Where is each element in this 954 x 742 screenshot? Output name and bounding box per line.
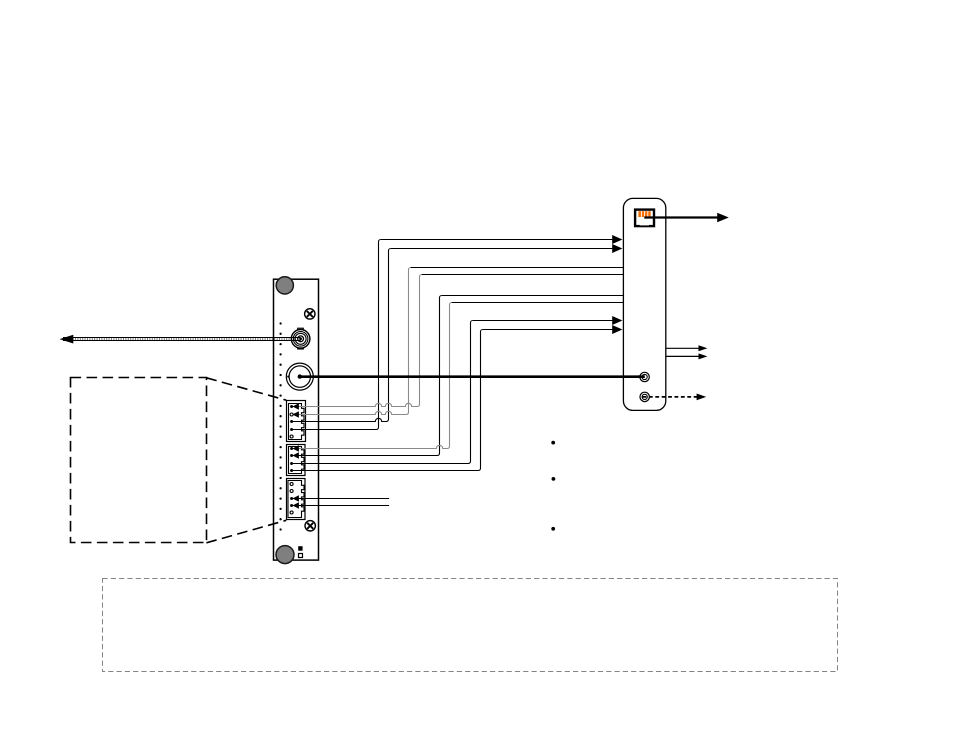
TB3 pin 1 contact <box>290 483 293 486</box>
note area dashed border (bottom) <box>103 579 838 672</box>
connector J2 (large round) <box>286 363 313 390</box>
TB2 pin 2 arrow <box>292 452 299 459</box>
dashed wire W-AUX with arrow <box>643 394 707 401</box>
wire W-NET from RJ jack to network (arrow right) <box>644 213 729 223</box>
wire W6: TB2 pin1 run and riser (hops W5) <box>292 303 452 449</box>
wire W3 top run to DEV1 <box>411 267 624 269</box>
coax cable W-ANT to antenna (left arrow) <box>60 335 301 344</box>
TB2 pin 1 contact <box>290 447 293 450</box>
device DEV1 body (wall unit) <box>623 198 665 410</box>
mounting knob bottom <box>276 546 294 564</box>
detail projection line top <box>206 378 286 400</box>
device jack JP1 (fed by thick wire) <box>639 372 650 381</box>
TB1 pin 4 contact <box>290 428 293 431</box>
detail callout dashed box <box>71 378 207 543</box>
wire W8 top run to DEV1 (arrow) <box>483 329 614 331</box>
detail projection line bottom <box>206 520 286 543</box>
terminal block TB2 outer <box>287 445 306 476</box>
terminal block TB2 inner castellated edge <box>289 447 305 474</box>
TB1 pin 1 contact <box>290 405 293 408</box>
panel LED dot column <box>279 322 281 324</box>
wires W-OUT pair from device right edge <box>666 345 708 359</box>
wire W5: TB2 pin2 run and riser <box>292 296 442 456</box>
bullet list markers <box>551 441 555 445</box>
TB1 pin 1 arrow <box>292 403 299 410</box>
wire W-PWR thick from J2 to DEV1 jack JP1 <box>301 375 645 378</box>
wire W1 top run to DEV1 (arrow) <box>381 239 614 241</box>
TB1 pin 3 contact <box>290 420 293 423</box>
TB2 pin 1 arrow <box>292 445 299 452</box>
TB2 pin 3 contact <box>290 462 293 465</box>
wire W2 top run to DEV1 (arrow) <box>391 248 614 250</box>
screw S1 top <box>305 309 315 319</box>
TB1 pin 5 contact <box>290 435 293 438</box>
TB3 pin 5 contact <box>290 511 293 514</box>
wire W5 top run to DEV1 <box>442 295 624 297</box>
TB3 pin 4 contact <box>290 504 293 507</box>
terminal block TB3 inner castellated edge <box>288 481 304 518</box>
terminal block TB1 outer <box>287 401 306 442</box>
wire W3: TB1 pin2 run and riser (hops W1,W2) <box>292 268 411 415</box>
wire W7: TB2 pin3 run and riser <box>292 321 473 464</box>
BNC connector J1 (small, with cable) <box>291 328 310 349</box>
TB2 pin 4 contact <box>290 469 293 472</box>
wire W10: TB3 pin4 stub <box>292 505 389 507</box>
wire W6 top run to DEV1 <box>452 302 624 304</box>
status indicator square (open) <box>299 554 303 558</box>
TB3 pin 4 arrow <box>292 502 299 509</box>
device jack JP2 (aux out) <box>640 392 649 401</box>
TB1 pin 2 contact <box>290 413 293 416</box>
terminal block TB3 outer <box>287 479 306 520</box>
wire W4: TB1 pin1 run and riser (hops W1,W2,W3) <box>292 275 422 407</box>
wire W9: TB3 pin3 stub <box>292 498 389 500</box>
TB3 pin 3 contact <box>290 497 293 500</box>
TB1 pin 2 arrow <box>292 411 299 418</box>
TB3 pin 2 contact <box>290 490 293 493</box>
TB2 pin 2 contact <box>290 454 293 457</box>
device DEV1 RJ jack frame <box>635 210 654 227</box>
wire W2: TB1 pin3 run and riser (hops W1) <box>292 249 391 422</box>
mounting knob top <box>276 277 293 294</box>
wire W1: TB1 pin4 run and riser <box>292 240 381 430</box>
wire W4 top run to DEV1 <box>422 274 624 276</box>
panel P1 faceplate <box>274 279 319 560</box>
terminal block TB1 inner castellated edge <box>289 404 305 440</box>
TB3 pin 3 arrow <box>292 495 299 502</box>
wire W7 top run to DEV1 (arrow) <box>473 320 614 322</box>
wire W8: TB2 pin4 run and riser <box>292 330 483 471</box>
status indicator square (filled) <box>298 546 302 551</box>
screw S2 bottom <box>305 521 315 531</box>
